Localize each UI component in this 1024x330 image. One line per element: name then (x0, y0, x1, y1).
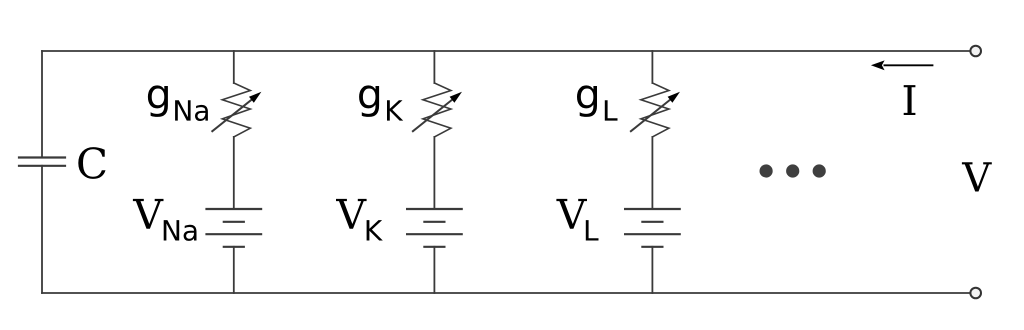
wire top rail (42, 50, 970, 52)
variable-resistor arrow of gNa (212, 92, 261, 131)
wire branch 1 bottom stub (233, 247, 235, 293)
label VNa (133, 199, 197, 241)
wire branch 2 middle stub (433, 137, 435, 209)
battery VNa (207, 209, 262, 247)
variable-resistor arrow of gK (413, 92, 462, 131)
label VK (336, 199, 383, 241)
label C (membrane capacitance) (78, 147, 105, 179)
label gL (577, 85, 618, 120)
battery VK (407, 209, 462, 247)
label V (membrane voltage) (962, 162, 992, 191)
capacitor C (19, 158, 65, 166)
label VL (556, 199, 598, 241)
battery VL (625, 209, 680, 247)
resistor gL (variable) zigzag (641, 83, 669, 137)
label gNa (148, 85, 208, 121)
wire branch 1 top stub (233, 51, 235, 83)
label gK (359, 85, 403, 120)
resistor gK (variable) zigzag (423, 83, 451, 137)
wire left branch bottom segment (41, 166, 43, 293)
wire left branch top segment (41, 51, 43, 158)
terminal node bottom right (970, 288, 981, 299)
wire branch 2 bottom stub (433, 247, 435, 293)
variable-resistor arrow of gL (631, 92, 680, 131)
wire bottom rail (42, 292, 970, 294)
wire branch 3 top stub (651, 51, 653, 83)
terminal node top right (970, 46, 981, 57)
label I (current) (904, 85, 916, 115)
wire branch 3 bottom stub (651, 247, 653, 293)
current arrow for I (871, 60, 934, 70)
ellipsis dots (more branches) (760, 164, 826, 177)
resistor gNa (variable) zigzag (222, 83, 250, 137)
wire branch 2 top stub (433, 51, 435, 83)
wire branch 1 middle stub (233, 137, 235, 209)
wire branch 3 middle stub (651, 137, 653, 209)
